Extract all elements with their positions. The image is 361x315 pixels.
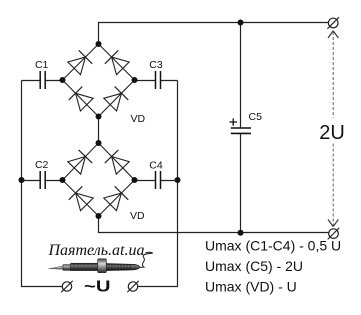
- node junction right rail / C4: [175, 177, 181, 183]
- terminal AC right: [127, 281, 138, 292]
- svg-text:VD: VD: [131, 113, 146, 125]
- bridge 1 diamond wires: [63, 44, 135, 117]
- diode VD1.4: [104, 87, 128, 111]
- svg-text:Umax (C5) - 2U: Umax (C5) - 2U: [205, 258, 303, 274]
- wire right AC rail: [138, 81, 178, 287]
- iron collar: [98, 259, 107, 273]
- soldering iron graphic: [49, 259, 140, 273]
- capacitor C1: [22, 59, 63, 89]
- svg-text:~U: ~U: [84, 279, 111, 296]
- diode VD2.4: [104, 186, 128, 210]
- svg-text:Umax (VD) - U: Umax (VD) - U: [205, 279, 297, 295]
- diode VD1.2: [105, 50, 129, 74]
- wire top bus from bridge1 top to output+ terminal: [99, 23, 329, 45]
- 2U dashed measure line with arrows: [328, 31, 338, 227]
- node bridge2 right: [132, 177, 138, 183]
- iron tip holder: [63, 265, 71, 271]
- bridge 2 diamond wires: [63, 143, 135, 216]
- node bridge2 bottom: [96, 213, 102, 219]
- terminal AC left: [61, 281, 72, 292]
- node bridge1 top: [96, 41, 102, 47]
- capacitor C3: [135, 59, 178, 89]
- wire bridge1 to bridge2 link: [98, 117, 100, 144]
- node bridge1 bottom: [96, 114, 102, 120]
- svg-text:Umax (C1-C4) - 0,5 U: Umax (C1-C4) - 0,5 U: [205, 237, 341, 253]
- wire bottom bus from bridge2 bottom to output- terminal: [99, 216, 329, 233]
- node junction left rail / C2: [19, 177, 25, 183]
- iron barrel: [71, 263, 98, 270]
- diode VD2.3: [69, 186, 93, 210]
- svg-text:C4: C4: [149, 160, 163, 172]
- iron handle: [106, 264, 140, 271]
- svg-text:2U: 2U: [319, 122, 345, 144]
- node bridge1 left: [60, 77, 66, 83]
- svg-text:C2: C2: [35, 159, 49, 171]
- terminal output+ (top right): [327, 17, 339, 29]
- node bridge2 top: [96, 140, 102, 146]
- capacitor C4: [135, 160, 178, 190]
- logo cord swoosh / iron cord: [140, 252, 153, 267]
- node bridge2 left: [60, 177, 66, 183]
- svg-text:C1: C1: [35, 59, 49, 71]
- diode VD2.2: [105, 150, 129, 174]
- svg-text:VD: VD: [130, 210, 145, 222]
- terminal output- (bottom right): [328, 228, 340, 240]
- capacitor C2: [22, 159, 63, 189]
- diode VD1.1: [68, 50, 92, 74]
- wire C5 bottom drop: [240, 133, 242, 232]
- iron handle ribs: [109, 264, 130, 270]
- svg-text:C5: C5: [249, 111, 263, 123]
- capacitor C5 (electrolytic): [230, 111, 263, 133]
- node junction top bus / C5: [238, 20, 244, 26]
- iron barrel knurl lines: [74, 264, 95, 271]
- diode VD2.1: [68, 150, 92, 174]
- wire left AC rail: [22, 81, 63, 287]
- iron needle tip: [49, 266, 64, 269]
- svg-text:C3: C3: [149, 59, 163, 71]
- wire C5 top drop: [240, 23, 242, 129]
- node bridge1 right: [132, 77, 138, 83]
- node junction bottom bus / C5: [238, 230, 244, 236]
- diode VD1.3: [69, 87, 93, 111]
- svg-text:Паятель.at.ua: Паятель.at.ua: [48, 242, 145, 259]
